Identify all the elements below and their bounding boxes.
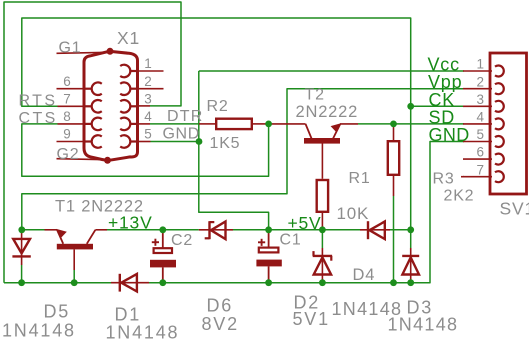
- svg-text:7: 7: [63, 92, 71, 107]
- label RTS: [19, 93, 58, 110]
- svg-text:G2: G2: [57, 146, 80, 163]
- junction SD node: [390, 121, 397, 128]
- value 1N4148 (D4): [332, 299, 403, 319]
- svg-text:1: 1: [144, 56, 152, 71]
- junction C2 gnd node: [159, 279, 166, 286]
- svg-text:2: 2: [144, 74, 152, 89]
- junction C2 +13V node: [159, 226, 166, 233]
- value 1N4148 (D3): [388, 315, 459, 335]
- pin 7 stub of SV1: [463, 176, 492, 178]
- pin G2 stub of X1: [57, 157, 112, 164]
- wire R3 bottom to GND rail: [393, 196, 395, 283]
- label R2: [207, 98, 229, 115]
- wire DTR from X1 pin4: [150, 123, 199, 125]
- svg-text:9: 9: [63, 127, 71, 142]
- svg-text:D1: D1: [115, 305, 142, 325]
- svg-text:CTS: CTS: [19, 110, 58, 127]
- junction D2 gnd node: [319, 279, 326, 286]
- label T1 2N2222: [55, 198, 144, 216]
- diode D6 zener 8V2: [199, 221, 233, 239]
- diode D5 1N4148: [12, 230, 30, 265]
- pin number 7 of SV1: [477, 162, 485, 177]
- label C1: [280, 232, 302, 249]
- pin name G2: [57, 146, 80, 163]
- connector SV1 body: [490, 53, 527, 194]
- svg-text:4: 4: [477, 110, 485, 125]
- junction C1 gnd node: [265, 279, 272, 286]
- pin number 5 of SV1: [477, 127, 485, 142]
- svg-text:3: 3: [477, 92, 485, 107]
- diode D1 1N4148: [111, 274, 149, 292]
- junction CK clamp node: [407, 226, 414, 233]
- pin number 4 of X1: [144, 109, 152, 124]
- resistor R1 body: [317, 144, 328, 230]
- junction D3 gnd node: [407, 279, 414, 286]
- wire SD to SV1 pin4: [358, 123, 464, 125]
- pin 1 stub of SV1: [463, 70, 492, 72]
- label D1: [115, 305, 142, 325]
- net label CK: [429, 90, 456, 110]
- pin name G1: [59, 40, 82, 57]
- svg-text:8: 8: [63, 109, 71, 124]
- wire Vcc to SV1 pin1: [199, 70, 464, 72]
- svg-text:1N4148: 1N4148: [2, 321, 76, 341]
- label R1: [349, 170, 371, 187]
- svg-text:DTR: DTR: [167, 108, 203, 125]
- svg-text:10K: 10K: [337, 204, 370, 223]
- pin 6 stub of SV1: [463, 158, 492, 160]
- wire D5 to GND rail: [21, 265, 23, 283]
- junction C1 +5V node: [265, 226, 272, 233]
- svg-text:1K5: 1K5: [210, 135, 241, 152]
- pin number 7 of X1: [63, 92, 71, 107]
- pin number 6 of SV1: [477, 145, 485, 160]
- pin 6 stub of X1: [57, 88, 85, 90]
- value 1N4148 (D5): [2, 321, 76, 341]
- pin number 6 of X1: [63, 74, 71, 89]
- svg-text:R3: R3: [433, 171, 455, 188]
- value 2K2: [444, 188, 475, 205]
- junction Vpp/T1e node: [18, 226, 25, 233]
- junction CK node: [407, 103, 414, 110]
- pin 3 stub of SV1: [463, 105, 492, 107]
- pin number 2 of SV1: [477, 74, 485, 89]
- capacitor C2: [150, 230, 176, 283]
- diode D2 zener 5V1: [313, 248, 332, 283]
- value 5V1: [293, 309, 330, 329]
- svg-text:D6: D6: [207, 296, 234, 316]
- net label +13V: [108, 212, 153, 232]
- pin number 8 of X1: [63, 109, 71, 124]
- svg-text:2N2222: 2N2222: [296, 103, 359, 121]
- net Vpp wire from T1 emitter to SV1 pin2: [22, 89, 464, 230]
- value 8V2: [202, 314, 239, 334]
- junction D5 gnd node: [18, 279, 25, 286]
- transistor T2: [269, 123, 358, 143]
- svg-text:+13V: +13V: [108, 212, 153, 232]
- pin number 2 of X1: [144, 74, 152, 89]
- resistor R2 body: [199, 119, 269, 129]
- svg-text:SV1: SV1: [500, 199, 529, 219]
- svg-text:RTS: RTS: [19, 93, 58, 110]
- pin G1 stub of X1: [57, 48, 114, 55]
- pin 4 stub of X1: [139, 123, 150, 125]
- svg-text:6: 6: [63, 74, 71, 89]
- svg-text:7: 7: [477, 162, 485, 177]
- svg-text:6: 6: [477, 145, 485, 160]
- value 10K: [337, 204, 370, 223]
- svg-text:5V1: 5V1: [293, 309, 330, 329]
- junction T1 base gnd node: [71, 279, 78, 286]
- label R3: [433, 171, 465, 188]
- wire X1 pin5 GND to Vcc line: [151, 141, 200, 143]
- pin number 5 of X1: [144, 127, 152, 142]
- svg-text:D5: D5: [44, 302, 71, 322]
- svg-text:4: 4: [144, 109, 152, 124]
- svg-text:1N4148: 1N4148: [106, 323, 180, 341]
- label C2: [171, 232, 193, 249]
- pin 3 stub of X1: [139, 105, 150, 107]
- label D4: [353, 266, 376, 284]
- svg-text:T2: T2: [305, 87, 325, 104]
- connector X1 DB9 body: [84, 52, 138, 161]
- svg-text:8V2: 8V2: [202, 314, 239, 334]
- wire GND rail left segment: [4, 282, 111, 284]
- value 1N4148 (D1): [106, 323, 180, 341]
- net label GND: [429, 125, 470, 145]
- wire +5V rail to D4: [388, 229, 411, 231]
- capacitor C1: [256, 230, 281, 283]
- svg-text:GND: GND: [163, 126, 200, 143]
- pin number 4 of SV1: [477, 110, 485, 125]
- svg-text:2K2: 2K2: [444, 188, 475, 205]
- wire +13V rail: [107, 229, 199, 231]
- pin 4 stub of SV1: [463, 123, 492, 125]
- svg-text:2: 2: [477, 74, 485, 89]
- svg-text:3: 3: [144, 92, 152, 107]
- pin 5 stub of SV1: [463, 141, 492, 143]
- label T2: [305, 87, 325, 104]
- pin 8 stub of X1 (CTS): [58, 123, 85, 125]
- net CTS wire loop to SD node: [22, 124, 269, 176]
- junction GND-Vcc node: [196, 138, 203, 145]
- pin number 3 of SV1: [477, 92, 485, 107]
- wire T1 base to GND rail: [73, 270, 75, 283]
- pin 5 stub of X1: [139, 141, 151, 143]
- pin number 1 of SV1: [477, 57, 485, 72]
- pin number 1 of X1: [144, 56, 152, 71]
- svg-text:5: 5: [144, 127, 152, 142]
- svg-text:G1: G1: [59, 40, 82, 57]
- label CTS: [19, 110, 58, 127]
- wire Vcc down to +5V rail: [199, 71, 269, 230]
- label D6: [207, 296, 234, 316]
- net label +5V: [288, 213, 322, 233]
- junction DTR/R2 node: [265, 121, 272, 128]
- junction R3 gnd node: [390, 279, 397, 286]
- wire TX net outer loop (X1 pin3 to GND rail): [4, 2, 181, 283]
- diode D4 1N4148: [360, 221, 390, 239]
- net label SD: [429, 107, 456, 127]
- resistor R3 body: [388, 124, 399, 196]
- label D5: [44, 302, 71, 322]
- value 2N2222 (T2): [296, 103, 359, 121]
- label D2: [294, 293, 321, 313]
- pin 2 stub of SV1: [463, 88, 492, 90]
- net label Vcc: [428, 55, 460, 75]
- pin 7 stub of X1 (RTS): [58, 105, 85, 107]
- junction D2 +5V node: [319, 226, 326, 233]
- label GND (X1 pin5): [163, 126, 200, 143]
- svg-text:C1: C1: [280, 232, 302, 249]
- label X1: [117, 28, 140, 48]
- svg-text:X1: X1: [117, 28, 140, 48]
- label SV1: [500, 199, 529, 219]
- svg-text:5: 5: [477, 127, 485, 142]
- net label Vpp: [428, 72, 462, 92]
- svg-text:D4: D4: [353, 266, 376, 284]
- pin 9 stub of X1: [57, 141, 85, 143]
- pin 1 stub of X1: [139, 70, 164, 72]
- diode D3 1N4148: [402, 248, 419, 283]
- value 1K5: [210, 135, 241, 152]
- svg-text:GND: GND: [429, 125, 470, 145]
- wire D2 top lead: [321, 230, 323, 248]
- wire D3 top lead: [410, 230, 412, 248]
- svg-text:1: 1: [477, 57, 485, 72]
- wire T1 emitter to Vpp node: [22, 229, 45, 231]
- svg-text:R2: R2: [207, 98, 229, 115]
- wire +5V rail: [233, 229, 360, 231]
- pin number 9 of X1: [63, 127, 71, 142]
- label DTR: [167, 108, 203, 125]
- wire CK down to clamp node: [410, 106, 412, 230]
- wire GND rail right segment up to SV1 pin5: [149, 142, 464, 283]
- pin 2 stub of X1: [139, 88, 164, 90]
- svg-text:+5V: +5V: [288, 213, 322, 233]
- net RTS wire to CK (top loop): [22, 18, 411, 106]
- label D3: [407, 298, 434, 318]
- transistor T1: [45, 229, 108, 270]
- pin number 3 of X1: [144, 92, 152, 107]
- wire CK to SV1 pin3: [411, 105, 464, 107]
- svg-text:1N4148: 1N4148: [388, 315, 459, 335]
- svg-text:C2: C2: [171, 232, 193, 249]
- svg-text:R1: R1: [349, 170, 371, 187]
